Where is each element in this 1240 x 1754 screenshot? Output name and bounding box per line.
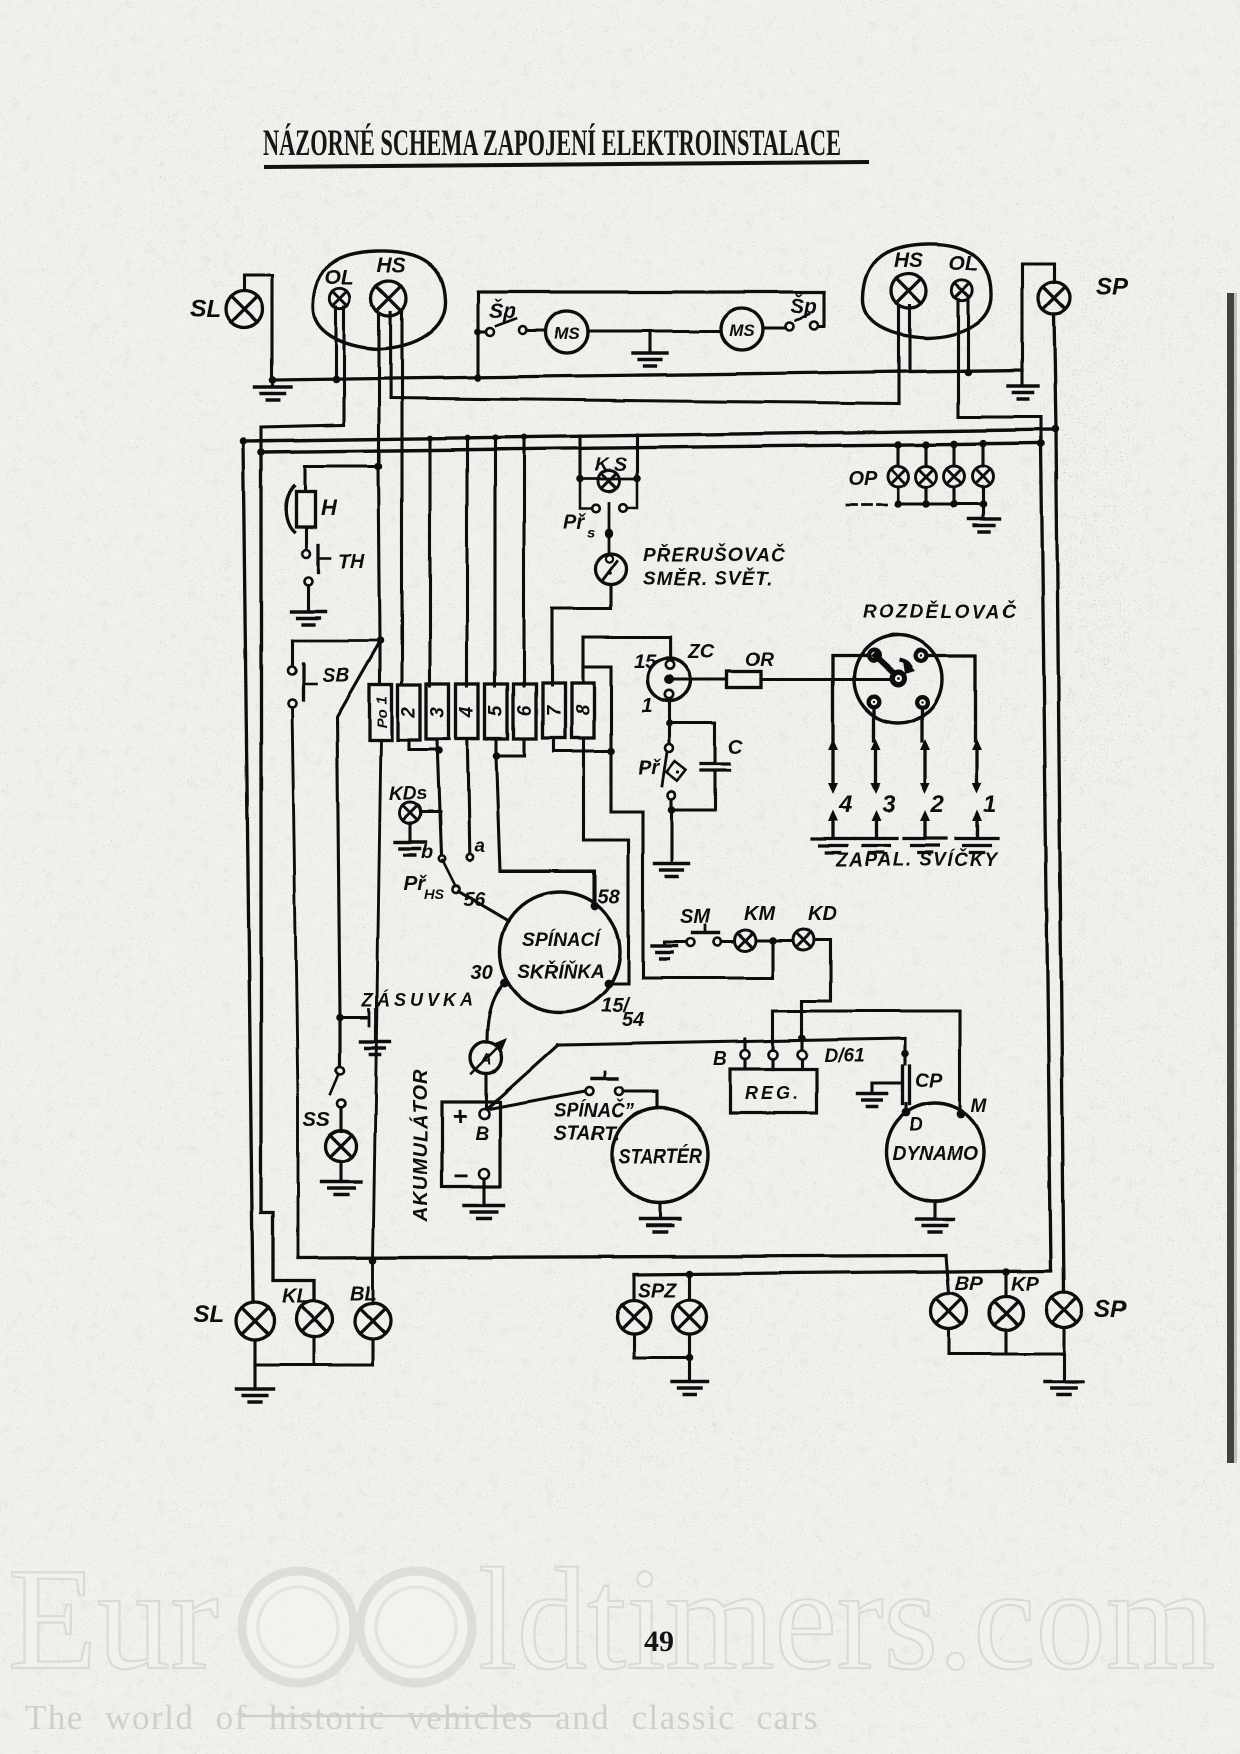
svg-text:Šp: Šp bbox=[790, 294, 817, 318]
svg-text:BP: BP bbox=[955, 1273, 983, 1295]
svg-text:SKŘÍŇKA: SKŘÍŇKA bbox=[518, 961, 605, 983]
svg-text:C: C bbox=[728, 737, 743, 759]
svg-text:5: 5 bbox=[486, 705, 507, 716]
svg-text:1: 1 bbox=[641, 695, 652, 717]
svg-text:Př: Př bbox=[563, 511, 586, 533]
svg-text:49: 49 bbox=[644, 1625, 674, 1658]
svg-text:HS: HS bbox=[424, 886, 444, 902]
svg-text:3: 3 bbox=[882, 791, 896, 818]
svg-text:KL: KL bbox=[282, 1286, 309, 1308]
svg-text:2: 2 bbox=[399, 706, 420, 718]
svg-text:KP: KP bbox=[1011, 1273, 1039, 1295]
svg-text:1: 1 bbox=[983, 791, 996, 818]
svg-text:ldtimers.com: ldtimers.com bbox=[478, 1538, 1215, 1700]
svg-text:OL: OL bbox=[949, 252, 978, 275]
svg-text:CP: CP bbox=[915, 1070, 943, 1092]
svg-text:OL: OL bbox=[325, 266, 354, 289]
svg-text:STARTÉR: STARTÉR bbox=[618, 1145, 703, 1168]
svg-text:OR: OR bbox=[745, 650, 774, 671]
svg-text:ROZDĚLOVAČ: ROZDĚLOVAČ bbox=[862, 601, 1019, 623]
svg-text:KM: KM bbox=[744, 903, 776, 925]
svg-text:SP: SP bbox=[1094, 1296, 1127, 1323]
svg-text:b: b bbox=[421, 842, 433, 863]
svg-text:M: M bbox=[971, 1096, 988, 1117]
svg-text:Eur: Eur bbox=[8, 1538, 219, 1700]
svg-text:8: 8 bbox=[573, 704, 594, 715]
svg-text:OP: OP bbox=[848, 468, 878, 490]
svg-text:2: 2 bbox=[930, 791, 945, 818]
svg-text:DYNAMO: DYNAMO bbox=[892, 1143, 978, 1165]
svg-text:SL: SL bbox=[194, 1301, 225, 1328]
svg-text:−: − bbox=[453, 1161, 468, 1191]
svg-text:PŘERUŠOVAČ: PŘERUŠOVAČ bbox=[643, 544, 786, 566]
svg-text:B: B bbox=[713, 1049, 727, 1070]
svg-text:B: B bbox=[475, 1124, 489, 1145]
svg-text:15: 15 bbox=[634, 651, 657, 673]
svg-text:ZC: ZC bbox=[687, 641, 715, 663]
svg-text:s: s bbox=[587, 524, 595, 541]
svg-text:KD: KD bbox=[808, 903, 837, 925]
svg-text:SS: SS bbox=[303, 1109, 330, 1131]
svg-text:3: 3 bbox=[428, 706, 449, 717]
svg-text:The world of historic vehicles: The world of historic vehicles and class… bbox=[25, 1698, 819, 1737]
svg-text:7: 7 bbox=[544, 704, 565, 716]
svg-text:SPZ: SPZ bbox=[638, 1280, 678, 1302]
svg-text:TH: TH bbox=[338, 551, 365, 573]
svg-text:START.: START. bbox=[554, 1123, 620, 1145]
svg-text:SM: SM bbox=[680, 906, 711, 928]
svg-text:Po 1: Po 1 bbox=[374, 696, 391, 728]
svg-text:SP: SP bbox=[1096, 274, 1129, 301]
svg-text:4: 4 bbox=[838, 791, 852, 818]
svg-text:58: 58 bbox=[598, 886, 621, 908]
svg-text:SPÍNAČ”: SPÍNAČ” bbox=[554, 1098, 634, 1122]
svg-text:HS: HS bbox=[894, 249, 923, 272]
svg-text:REG.: REG. bbox=[745, 1083, 801, 1103]
svg-text:30: 30 bbox=[471, 962, 493, 984]
svg-text:HS: HS bbox=[377, 254, 406, 277]
svg-text:+: + bbox=[452, 1101, 467, 1131]
svg-text:SMĚR. SVĚT.: SMĚR. SVĚT. bbox=[643, 568, 773, 590]
svg-text:SL: SL bbox=[190, 296, 221, 323]
svg-text:MS: MS bbox=[729, 321, 755, 340]
svg-text:K S: K S bbox=[595, 455, 627, 476]
svg-text:ZÁSUVKA: ZÁSUVKA bbox=[361, 989, 477, 1010]
svg-text:BL: BL bbox=[350, 1283, 377, 1305]
svg-text:D: D bbox=[909, 1115, 923, 1136]
svg-text:Šp: Šp bbox=[489, 299, 516, 323]
svg-text:H: H bbox=[321, 495, 338, 520]
svg-text:a: a bbox=[474, 836, 485, 857]
svg-text:SB: SB bbox=[322, 665, 350, 687]
svg-text:NÁZORNÉ SCHEMA ZAPOJENÍ ELEKTR: NÁZORNÉ SCHEMA ZAPOJENÍ ELEKTROINSTALACE bbox=[263, 122, 841, 164]
svg-text:6: 6 bbox=[515, 705, 536, 716]
svg-text:Př: Př bbox=[638, 757, 661, 779]
svg-text:54: 54 bbox=[622, 1009, 644, 1031]
svg-text:AKUMULÁTOR: AKUMULÁTOR bbox=[409, 1069, 432, 1223]
svg-text:D/61: D/61 bbox=[824, 1046, 864, 1067]
svg-text:4: 4 bbox=[457, 706, 478, 718]
svg-text:ZAPAL. SVÍČKY: ZAPAL. SVÍČKY bbox=[835, 849, 1000, 871]
svg-text:SPÍNACÍ: SPÍNACÍ bbox=[522, 929, 603, 951]
svg-text:MS: MS bbox=[554, 324, 580, 343]
